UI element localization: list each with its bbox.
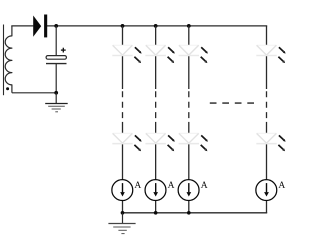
LED1 (branch 1, row 1)	[112, 45, 141, 63]
polarity dot of L1	[6, 87, 9, 90]
junction node: bottom bus / branch 2	[154, 211, 158, 215]
junction node: bottom bus / branch 1	[121, 211, 125, 215]
wire: branch 4 upper segment	[266, 26, 268, 89]
svg-text:A: A	[278, 181, 285, 191]
label A of I2	[168, 181, 175, 191]
capacitor C1 (polarized)	[46, 56, 67, 64]
svg-text:A: A	[201, 181, 208, 191]
svg-text:A: A	[168, 181, 175, 191]
dashed ellipsis between branch 3 and branch 4	[210, 102, 254, 104]
inductor L1 (winding and core line)	[4, 25, 12, 96]
wire: top bus from diode cathode to top-right corner	[47, 25, 267, 27]
wire: branch 3 upper segment	[188, 26, 190, 89]
wire: branch 4 dashed continuation	[266, 91, 268, 122]
LED7 (branch 3, row 2)	[179, 133, 208, 151]
wire: branch 2 source to bottom bus	[155, 200, 157, 212]
LED3 (branch 3, row 1)	[179, 45, 208, 63]
wire: branch 2 dashed continuation	[155, 91, 157, 122]
ground symbol (left, under capacitor)	[45, 93, 67, 112]
current source I1 (branch 1)	[112, 180, 133, 201]
current source I4 (branch 4)	[256, 180, 277, 201]
label A of I4	[278, 181, 285, 191]
junction node: bottom bus / branch 3	[187, 211, 191, 215]
wire: bottom bus	[123, 212, 268, 214]
junction node: top bus / branch 2	[154, 24, 158, 28]
wire: branch 2 upper segment	[155, 26, 157, 89]
junction node: inductor / capacitor / ground	[54, 91, 58, 95]
diode D1	[33, 15, 47, 38]
ground symbol (bottom, under branch 1)	[108, 213, 135, 234]
wire: junction down to capacitor plus plate	[55, 26, 57, 56]
LED5 (branch 1, row 2)	[112, 133, 141, 151]
wire: branch 1 lower segment	[122, 122, 124, 180]
junction node: top bus / branch 3	[187, 24, 191, 28]
LED8 (branch 4, row 2)	[256, 133, 285, 151]
LED4 (branch 4, row 1)	[256, 45, 285, 63]
svg-text:A: A	[134, 181, 141, 191]
junction node: diode cathode / capacitor top	[54, 24, 58, 28]
plus sign of C1	[61, 48, 66, 53]
junction node: top bus / branch 1	[121, 24, 125, 28]
wire: branch 3 lower segment	[188, 122, 190, 180]
LED6 (branch 2, row 2)	[145, 133, 174, 151]
wire: branch 4 source to bottom bus	[266, 200, 268, 212]
wire: branch 3 dashed continuation	[188, 91, 190, 122]
wire: inductor bottom to ground junction	[12, 92, 56, 94]
wire: branch 3 source to bottom bus	[188, 200, 190, 212]
wire: inductor top to diode anode	[11, 25, 33, 27]
label A of I1	[134, 181, 141, 191]
LED2 (branch 2, row 1)	[145, 45, 174, 63]
wire: capacitor bottom plate to ground junction	[55, 64, 57, 93]
wire: branch 2 lower segment	[155, 122, 157, 180]
wire: branch 1 upper segment	[122, 26, 124, 89]
current source I2 (branch 2)	[145, 180, 166, 201]
current source I3 (branch 3)	[178, 180, 199, 201]
label A of I3	[201, 181, 208, 191]
wire: branch 1 dashed continuation	[122, 91, 124, 122]
wire: branch 4 lower segment	[266, 122, 268, 180]
wire: branch 1 source to bottom bus	[122, 200, 124, 212]
